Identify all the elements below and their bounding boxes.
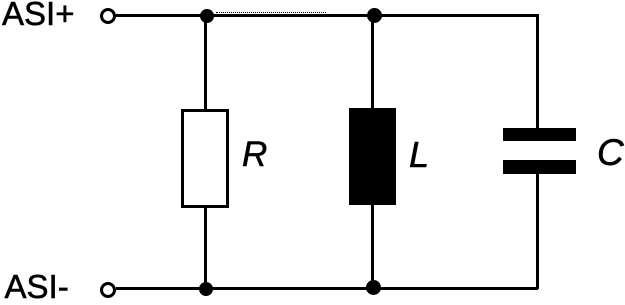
capacitor C top plate — [503, 128, 576, 141]
wire C branch top — [536, 15, 539, 129]
inductor L body — [349, 108, 396, 205]
wire R branch top — [204, 16, 207, 109]
resistor R body — [181, 109, 229, 208]
wire bottom horizontal — [116, 287, 538, 290]
wire L branch bottom — [371, 205, 374, 288]
wire top horizontal — [116, 14, 539, 17]
wire top dotted scan fringe — [216, 12, 326, 13]
terminal ASI+ (open circle) — [100, 8, 116, 24]
capacitor C value label — [597, 134, 624, 171]
wire C branch bottom — [536, 174, 539, 289]
wire L branch top — [371, 15, 374, 108]
inductor L value label — [409, 137, 429, 173]
resistor R value label — [242, 137, 267, 172]
junction bottom-L — [366, 280, 381, 295]
capacitor C bottom plate — [503, 160, 576, 174]
junction top-R — [200, 9, 214, 23]
node ASI- label — [5, 270, 69, 303]
wire R branch bottom — [204, 208, 207, 288]
node ASI+ label — [2, 0, 74, 30]
junction top-L — [367, 8, 382, 23]
junction bottom-R — [199, 282, 213, 296]
terminal ASI- (open circle) — [100, 282, 116, 298]
